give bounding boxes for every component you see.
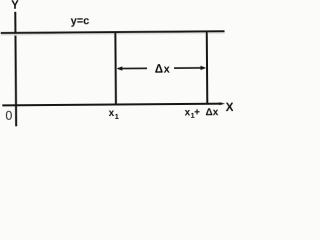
svg-text:1: 1 xyxy=(115,112,119,121)
svg-text:Δ: Δ xyxy=(205,107,212,118)
svg-text:x: x xyxy=(213,107,219,118)
svg-text:y=c: y=c xyxy=(71,15,90,27)
svg-text:+: + xyxy=(194,107,200,118)
ordinate at x1+dx xyxy=(206,31,209,104)
svg-text:Δ: Δ xyxy=(155,63,163,75)
line y=c xyxy=(1,31,225,33)
svg-text:Y: Y xyxy=(11,0,19,12)
svg-text:x: x xyxy=(164,63,171,75)
shadow under y=c line xyxy=(1,33,225,35)
ordinate at x1 xyxy=(114,32,117,104)
svg-text:X: X xyxy=(226,100,233,114)
X axis xyxy=(2,104,222,106)
X axis arrowhead xyxy=(219,102,225,105)
delta-x dimension arrow right part xyxy=(174,67,203,69)
Y axis xyxy=(14,12,17,126)
delta-x dimension arrow left part xyxy=(118,67,147,69)
svg-text:0: 0 xyxy=(5,109,12,123)
